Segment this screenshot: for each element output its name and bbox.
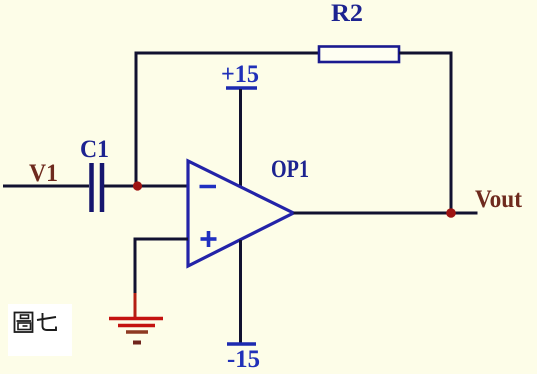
wire feedback left vertical (135, 52, 138, 187)
capacitor C1 (92, 163, 103, 212)
wire non-inverting input horizontal (135, 238, 188, 241)
wire C1 to inverting input (104, 185, 188, 188)
wire R2 to right corner (399, 52, 453, 55)
wire output stub to Vout (451, 212, 478, 215)
power -15 rail bar (227, 342, 256, 346)
wire ground red segment (134, 293, 137, 318)
wire +15 to op-amp V+ pin (239, 89, 242, 187)
wire non-inverting input vertical to ground (134, 238, 137, 294)
svg-text:C1: C1 (80, 136, 109, 163)
wire op-amp V- pin to -15 (239, 240, 242, 343)
caption character 七 (37, 313, 56, 330)
wire V1 input to C1 (3, 185, 89, 188)
caption white box (8, 304, 72, 356)
wire feedback top horizontal (135, 52, 321, 55)
svg-text:Vout: Vout (475, 186, 523, 213)
power +15 rail bar (226, 86, 257, 90)
caption character 圖 (15, 313, 33, 333)
node junction dot at output (446, 208, 456, 218)
op-amp OP1 (188, 161, 294, 266)
svg-text:+15: +15 (221, 61, 259, 88)
wire feedback right vertical (450, 52, 453, 214)
op-amp minus input symbol (200, 185, 217, 189)
wire op-amp output (294, 212, 452, 215)
op-amp plus input symbol (201, 231, 217, 247)
node junction dot at inverting input (133, 181, 142, 190)
svg-text:-15: -15 (227, 346, 260, 373)
ground (109, 319, 163, 343)
svg-text:R2: R2 (331, 0, 363, 27)
resistor R2 (319, 47, 399, 63)
svg-text:V1: V1 (29, 160, 58, 187)
svg-text:OP1: OP1 (271, 156, 309, 183)
